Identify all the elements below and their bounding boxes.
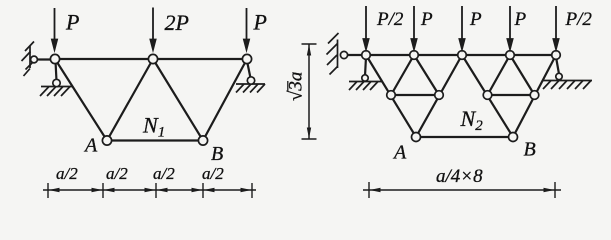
node: left truss wall pin [31,56,38,63]
svg-text:B: B [524,139,536,161]
wire: right truss diagonal T2-M2 [414,55,439,95]
svg-text:P: P [253,10,267,35]
load: arrow P/2 at right T1 [363,6,368,49]
node: left truss T3 [242,54,251,63]
node: right truss T5 [552,51,561,60]
wire: right truss bottom chord A-B [416,136,513,138]
node: left truss A [102,136,111,145]
wire: left truss diagonal T1-A [55,59,107,141]
svg-text:a/2: a/2 [202,164,224,183]
support: left truss wall [22,42,35,77]
node: right truss B [509,133,518,142]
wire: right truss link T1 to roller [365,57,366,76]
wire: left truss link T1 to roller [56,61,57,81]
dimension arrows: left a/2 chain [49,188,252,192]
node: right truss M1 [387,91,396,100]
svg-text:a/2: a/2 [153,164,175,183]
wire: right truss horizontal M3-M4 [488,94,535,96]
load: arrow 2P at T2 [150,8,155,50]
node: right truss T1 [362,51,371,60]
wire: right truss diagonal T2-M1 [391,55,414,95]
wire: right truss link T5 to roller [556,57,559,74]
wire: right truss link wall pin to T1 [344,54,366,56]
support: left truss left roller ground [40,87,73,97]
node: right truss right roller pin [556,73,562,79]
node: right truss M4 [530,91,539,100]
support: right truss wall [327,33,339,75]
svg-text:P/2: P/2 [376,9,404,30]
node: right truss left roller pin [362,75,368,81]
node: right truss T2 [410,51,419,60]
load: arrow P at right T4 [507,6,512,49]
load: arrow P at T1 [52,8,57,50]
node: right truss T4 [506,51,515,60]
svg-text:P/2: P/2 [565,9,593,30]
svg-text:a/4×8: a/4×8 [436,166,483,187]
wire: right truss top chord T1-T5 [366,54,556,56]
node: right truss wall pin [340,51,347,58]
wire: right truss side T3-M3-B [462,55,513,137]
svg-text:A: A [392,142,407,164]
node: right truss T3 [458,51,467,60]
node: left truss right roller pin [247,77,254,84]
node: right truss M3 [483,91,492,100]
wire: right truss horizontal M1-M2 [391,94,439,96]
svg-text:B: B [211,143,223,165]
load: arrow P at T3 [244,8,249,50]
svg-text:P: P [65,10,79,35]
load: arrow P at right T2 [411,6,416,49]
wire: left truss bottom chord A-B [107,139,203,141]
node: right truss M2 [435,91,444,100]
wire: right truss diagonal T4-M3 [488,55,511,95]
wire: left truss link T3 to right roller [247,61,251,78]
support: left truss right roller ground [236,84,265,93]
svg-text:A: A [83,135,98,157]
wire: left truss link wall pin to T1 [34,58,55,60]
wire: right truss diagonal T4-M4 [510,55,535,95]
svg-text:2P: 2P [165,10,189,35]
support: right truss right roller ground [543,81,592,90]
node: left truss T1 [50,54,59,63]
dimension: sqrt(3)a vertical [302,44,317,139]
label sqrt(3)a rotated [286,72,307,101]
svg-text:a/2: a/2 [106,164,128,183]
node: left truss B [198,136,207,145]
svg-text:a/2: a/2 [56,164,78,183]
wire: left truss diagonal T3-B [203,59,247,141]
support: right truss left roller ground [349,82,382,91]
wire: left truss top chord T1-T3 [55,58,247,60]
svg-text:P: P [469,9,482,30]
wire: left truss diagonal T2-B [153,59,203,141]
dimension: a/4x8 line [363,182,561,198]
load: arrow P at right T3 [459,6,464,49]
node: right truss A [412,133,421,142]
load: arrow P/2 at right T5 [553,6,558,49]
wire: right truss side T1-M1-A [366,55,416,137]
wire: right truss side T5-M4-B [513,55,556,137]
svg-text:P: P [514,9,527,30]
node: left truss left roller pin [53,79,60,86]
svg-text:√3a: √3a [286,72,307,101]
node: left truss T2 [148,54,157,63]
wire: right truss side T3-M2-A [416,55,462,137]
dimension arrows: a/4x8 [370,188,555,192]
dimension: left a/2 chain line [43,183,256,198]
svg-text:P: P [420,9,433,30]
wire: left truss diagonal T2-A [107,59,153,141]
